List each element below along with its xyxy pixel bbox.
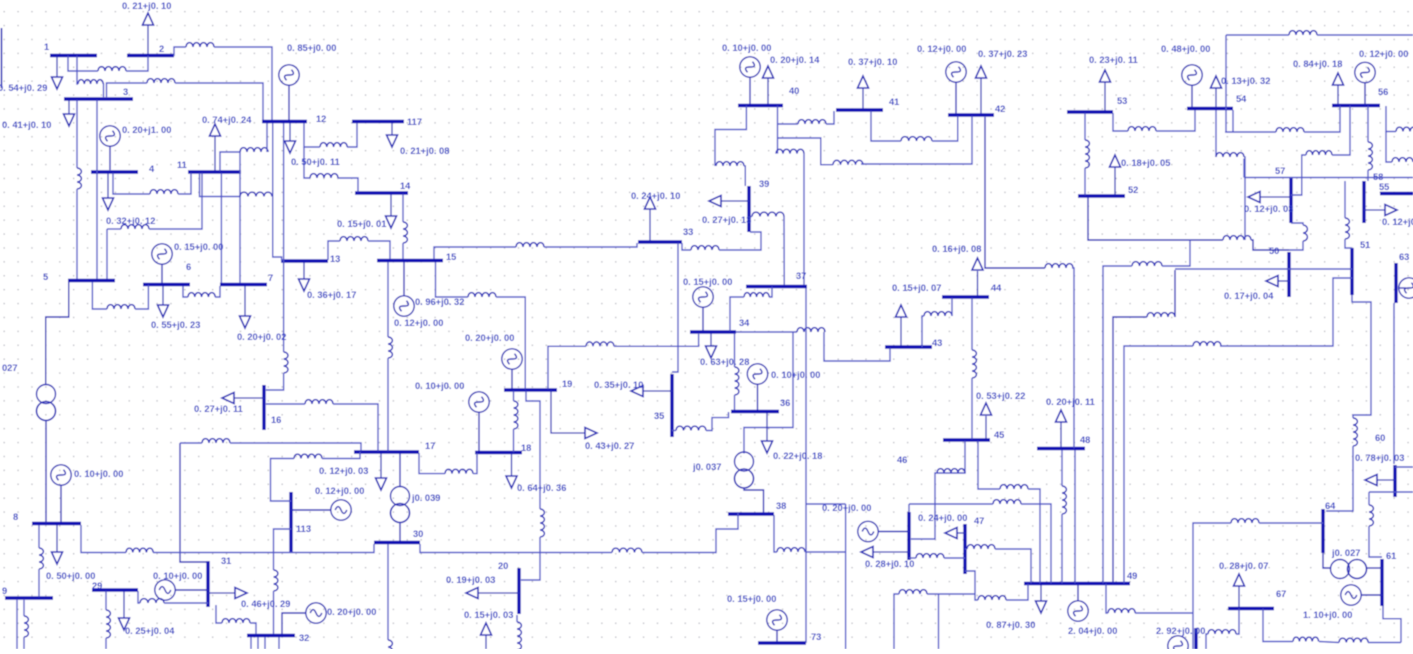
generator G40 bbox=[740, 57, 760, 77]
inductor 4-11 bbox=[150, 190, 178, 194]
wire 60-E2 bbox=[1369, 491, 1413, 493]
wire 4-11b bbox=[178, 173, 191, 194]
wire 49-E bbox=[1106, 584, 1108, 613]
wire 12-14 bbox=[304, 147, 310, 178]
bus 5 bbox=[43, 272, 115, 282]
inductor 39-E bbox=[752, 212, 784, 216]
bus 12 bbox=[262, 114, 326, 124]
wire 52-50b bbox=[1251, 240, 1289, 250]
wire 17-trf bbox=[399, 453, 401, 487]
load bus57 bbox=[1244, 192, 1293, 215]
bus 50 bbox=[1269, 246, 1289, 297]
svg-text:0. 10+j0. 00: 0. 10+j0. 00 bbox=[415, 381, 464, 391]
inductor 67-R bbox=[1293, 637, 1319, 641]
inductor 16-17 bbox=[305, 400, 333, 404]
wire 9-10b bbox=[23, 600, 25, 616]
load bus56 up bbox=[1293, 59, 1344, 105]
svg-text:0. 15+j0. 07: 0. 15+j0. 07 bbox=[892, 283, 941, 293]
transformer T17-30 j0.039 bbox=[391, 487, 441, 523]
wire 48-49x bbox=[1074, 450, 1076, 583]
svg-text:61: 61 bbox=[1386, 551, 1396, 561]
svg-text:0. 12+j0. 00: 0. 12+j0. 00 bbox=[315, 486, 364, 496]
svg-text:9: 9 bbox=[2, 586, 7, 596]
wire 15-19 bbox=[436, 262, 469, 297]
svg-text:0. 10+j0. 00: 0. 10+j0. 00 bbox=[722, 43, 771, 53]
svg-text:5: 5 bbox=[43, 272, 48, 282]
svg-text:0. 37+j0. 10: 0. 37+j0. 10 bbox=[848, 57, 897, 67]
svg-text:0. 24+j0. 10: 0. 24+j0. 10 bbox=[631, 191, 680, 201]
load bus29 bbox=[119, 591, 176, 636]
svg-text:117: 117 bbox=[407, 117, 422, 127]
inductor 12-117 bbox=[320, 143, 347, 147]
svg-text:8: 8 bbox=[13, 512, 18, 522]
bus 37 bbox=[746, 271, 807, 287]
wire 9-10a bbox=[16, 600, 18, 649]
load bus7 bbox=[237, 286, 286, 342]
wire G18 stem bbox=[478, 412, 480, 452]
wire 46-47 bbox=[909, 557, 916, 559]
wire 6-7 bbox=[183, 286, 188, 297]
wire 34-37 bbox=[769, 287, 772, 297]
wire 40-41 bbox=[778, 123, 799, 125]
wire 17-31 bbox=[180, 443, 208, 562]
wire 3-5a bbox=[76, 100, 78, 168]
wire 39-E bbox=[750, 216, 752, 218]
wire 39-Eb bbox=[783, 217, 785, 286]
bus 39 bbox=[749, 179, 769, 232]
inductor 8-9 bbox=[39, 548, 43, 569]
wire 29-S bbox=[105, 591, 107, 610]
inductor 17-18 bbox=[445, 469, 473, 473]
wire 61-Sd bbox=[1368, 642, 1401, 644]
load bus117 bbox=[387, 123, 450, 156]
load bus50 bbox=[1224, 276, 1289, 302]
inductor 8-30 bbox=[126, 548, 153, 552]
wire 46-49c bbox=[1021, 504, 1051, 583]
bus 18 bbox=[475, 443, 531, 453]
wire 48-49b bbox=[1061, 514, 1063, 583]
wire 17-113 bbox=[271, 459, 295, 502]
svg-text:0. 12+j0. 00: 0. 12+j0. 00 bbox=[917, 44, 966, 54]
wire G46 stem bbox=[878, 531, 910, 533]
inductor 54-56 bbox=[1276, 128, 1304, 132]
wire 32-s2 bbox=[257, 637, 259, 649]
wire 12-117b bbox=[347, 123, 357, 147]
wire 43-44 bbox=[922, 316, 924, 347]
svg-text:11: 11 bbox=[177, 160, 187, 170]
inductor 34-37 bbox=[744, 293, 769, 297]
generator G4 bbox=[100, 126, 120, 146]
inductor 12-14 bbox=[310, 174, 338, 178]
svg-text:0. 96+j0. 32: 0. 96+j0. 32 bbox=[415, 297, 464, 307]
svg-text:64: 64 bbox=[1325, 501, 1336, 511]
wire 56-57b bbox=[1291, 155, 1306, 195]
wire 60-61 bbox=[1368, 492, 1370, 505]
wire 37-73 bbox=[805, 288, 807, 643]
inductor 57-50 bbox=[1303, 225, 1307, 241]
wire 3-5b bbox=[96, 100, 98, 279]
wire 57-E bbox=[1244, 177, 1413, 179]
svg-text:0. 55+j0. 23: 0. 55+j0. 23 bbox=[151, 320, 200, 330]
wire 16-17 bbox=[266, 403, 305, 405]
wire 5-6 bbox=[92, 282, 107, 309]
wire 17-18b bbox=[473, 453, 477, 474]
inductor 45-46 bbox=[937, 469, 965, 473]
wire 56-E2 bbox=[1386, 132, 1392, 163]
load bus42 up bbox=[976, 49, 1028, 114]
wire 50br-49 bbox=[1162, 240, 1190, 266]
generator G36 bbox=[747, 364, 767, 384]
svg-text:39: 39 bbox=[759, 179, 769, 189]
wire 48-49 bbox=[1061, 450, 1063, 486]
bus 8 bbox=[13, 512, 81, 524]
wire edge-tick bbox=[1, 28, 3, 88]
svg-text:0. 41+j0. 10: 0. 41+j0. 10 bbox=[2, 120, 51, 130]
wire 46-49b bbox=[909, 503, 993, 505]
wire 18-19b bbox=[513, 391, 515, 401]
svg-text:53: 53 bbox=[1117, 96, 1127, 106]
svg-text:20: 20 bbox=[498, 561, 508, 571]
svg-text:16: 16 bbox=[271, 415, 281, 425]
load bus3 bbox=[2, 100, 75, 130]
inductor topB bbox=[1289, 31, 1317, 35]
svg-text:49: 49 bbox=[1127, 571, 1137, 581]
svg-text:52: 52 bbox=[1128, 185, 1138, 195]
wire 8-30 bbox=[81, 525, 126, 553]
svg-text:0. 27+j0. 11: 0. 27+j0. 11 bbox=[194, 404, 243, 414]
inductor 67-L bbox=[1208, 630, 1236, 634]
load bus48 up bbox=[1046, 397, 1095, 448]
wire trf-61 bbox=[1366, 567, 1382, 569]
inductor 38-E bbox=[777, 548, 805, 552]
bus 53 bbox=[1067, 96, 1127, 112]
generator G19 bbox=[502, 349, 522, 369]
generator G56 bbox=[1355, 62, 1375, 82]
wire 47-49b2 bbox=[1006, 584, 1028, 600]
svg-text:0. 48+j0. 00: 0. 48+j0. 00 bbox=[1161, 44, 1210, 54]
wire G49 stem bbox=[1077, 584, 1079, 602]
bus 36 bbox=[731, 398, 790, 412]
inductor 47-49a bbox=[967, 545, 995, 549]
bus 63 bbox=[1396, 252, 1409, 303]
bus 3 bbox=[64, 87, 133, 99]
inductor 19-34 bbox=[586, 342, 614, 346]
wire 49-64b bbox=[1259, 522, 1323, 524]
wire G36 stem bbox=[757, 384, 759, 410]
svg-text:38: 38 bbox=[776, 501, 786, 511]
wire 7-12 bbox=[239, 152, 241, 283]
svg-text:0. 12+j0. 00: 0. 12+j0. 00 bbox=[394, 318, 443, 328]
wire 2-12 bbox=[174, 47, 186, 56]
wire 5-11b bbox=[149, 173, 202, 229]
wire 38-Eb bbox=[805, 551, 846, 553]
svg-text:50: 50 bbox=[1269, 246, 1279, 256]
bus 16 bbox=[264, 385, 281, 430]
wire trf-30 bbox=[399, 523, 401, 542]
inductor 17-113 bbox=[294, 454, 322, 458]
svg-text:0. 54+j0. 29: 0. 54+j0. 29 bbox=[0, 83, 47, 93]
wire 113-32b bbox=[273, 591, 275, 634]
inductor 41-42 bbox=[901, 137, 932, 141]
wire 3-12b bbox=[175, 83, 263, 120]
wire 49-51b bbox=[1220, 278, 1352, 346]
inductor 49-51 bbox=[1193, 342, 1221, 346]
wire 53-54b bbox=[1156, 110, 1195, 131]
wire G32 stem bbox=[282, 613, 307, 634]
inductor 47-49b bbox=[978, 596, 1006, 600]
svg-text:54: 54 bbox=[1236, 94, 1247, 104]
svg-text:0. 12+j0. 00: 0. 12+j0. 00 bbox=[1359, 49, 1408, 59]
inductor 40-37 bbox=[776, 149, 804, 153]
svg-text:15: 15 bbox=[446, 252, 456, 262]
wire 53-52b bbox=[1084, 168, 1086, 195]
bus 1 bbox=[44, 42, 97, 56]
wire 1-3b bbox=[102, 84, 105, 97]
svg-text:027: 027 bbox=[2, 363, 18, 373]
wire 56-58 bbox=[1367, 106, 1369, 142]
wire 57-Ev bbox=[1243, 159, 1245, 178]
svg-text:2: 2 bbox=[159, 44, 164, 54]
svg-text:0. 20+j0. 00: 0. 20+j0. 00 bbox=[465, 333, 514, 343]
bus 35 bbox=[654, 374, 672, 437]
wire 34-36 bbox=[734, 333, 736, 367]
wire 54-57b bbox=[1244, 157, 1245, 240]
inductor 45-49 bbox=[1000, 485, 1028, 489]
inductor 56-E bbox=[1396, 127, 1413, 131]
wire G19 stem bbox=[511, 369, 513, 390]
wire 4-11 bbox=[113, 173, 150, 194]
wire 34-36b bbox=[734, 395, 736, 410]
inductor 11-12 bbox=[240, 148, 268, 152]
svg-text:40: 40 bbox=[789, 86, 799, 96]
svg-text:14: 14 bbox=[400, 181, 411, 191]
load bus18 bbox=[506, 453, 566, 493]
bus 4 bbox=[91, 164, 155, 174]
inductor 20-S bbox=[517, 622, 521, 650]
svg-text:0. 15+j0. 00: 0. 15+j0. 00 bbox=[727, 594, 776, 604]
load bus16 bbox=[194, 393, 264, 415]
generator G32 bbox=[306, 603, 326, 623]
svg-text:0. 28+j0. 07: 0. 28+j0. 07 bbox=[1219, 561, 1268, 571]
generator G73 bbox=[767, 610, 787, 630]
wire 12-117 bbox=[304, 123, 320, 147]
wire 2-12b bbox=[214, 47, 272, 120]
svg-text:2. 04+j0. 00: 2. 04+j0. 00 bbox=[1068, 626, 1117, 636]
load bus43 up bbox=[892, 283, 941, 346]
inductor 49-E bbox=[1108, 609, 1135, 613]
wire 40-37 bbox=[777, 106, 779, 154]
bus 60 bbox=[1375, 433, 1395, 497]
inductor 33-39 bbox=[691, 246, 719, 250]
svg-text:0. 10+j0. 00: 0. 10+j0. 00 bbox=[771, 370, 820, 380]
inductor 15-33 bbox=[516, 243, 544, 247]
wire 12-14b bbox=[338, 178, 358, 192]
wire G113 stem bbox=[291, 509, 332, 511]
bus 73 bbox=[758, 632, 821, 643]
svg-text:29: 29 bbox=[92, 581, 102, 591]
svg-text:30: 30 bbox=[413, 529, 423, 539]
svg-text:0. 10+j0. 00: 0. 10+j0. 00 bbox=[153, 571, 202, 581]
svg-text:45: 45 bbox=[994, 430, 1004, 440]
svg-text:0. 12+j0. 03: 0. 12+j0. 03 bbox=[319, 466, 368, 476]
svg-text:6: 6 bbox=[186, 262, 191, 272]
wire 42-48b bbox=[1072, 268, 1074, 448]
wire 52-50 bbox=[1088, 197, 1223, 240]
svg-text:67: 67 bbox=[1276, 589, 1286, 599]
svg-text:44: 44 bbox=[991, 283, 1002, 293]
inductor 5-11 bbox=[121, 225, 149, 229]
wire G15 stem bbox=[403, 262, 405, 297]
wire 15-17 bbox=[387, 262, 389, 337]
svg-text:34: 34 bbox=[739, 318, 750, 328]
wire 31-32 bbox=[216, 605, 222, 623]
wire 34-43 bbox=[736, 331, 797, 333]
wire 40-41b bbox=[826, 111, 834, 124]
svg-text:47: 47 bbox=[974, 516, 984, 526]
generator G61 bbox=[1341, 585, 1361, 605]
svg-text:0. 13+j0. 32: 0. 13+j0. 32 bbox=[1221, 76, 1270, 86]
svg-text:46: 46 bbox=[897, 455, 907, 465]
generator G12 bbox=[279, 65, 299, 85]
wire 29-31 bbox=[138, 591, 140, 603]
svg-text:0. 12+j0. 06: 0. 12+j0. 06 bbox=[1382, 217, 1413, 227]
svg-text:43: 43 bbox=[932, 338, 942, 348]
inductor 29-S bbox=[106, 610, 110, 638]
wire 34-38 bbox=[744, 332, 793, 454]
inductor 14-15 bbox=[403, 222, 407, 243]
svg-text:0. 20+j0. 11: 0. 20+j0. 11 bbox=[1046, 397, 1095, 407]
generator G34 bbox=[693, 287, 713, 307]
load bus19 right bbox=[551, 390, 634, 451]
wire 19-20b bbox=[521, 537, 540, 580]
wire 45-46b bbox=[911, 473, 937, 539]
svg-text:0. 50+j0. 11: 0. 50+j0. 11 bbox=[291, 157, 340, 167]
svg-text:0. 43+j0. 27: 0. 43+j0. 27 bbox=[585, 441, 634, 451]
inductor 2-12 bbox=[186, 43, 214, 47]
wire 14-15 bbox=[402, 194, 404, 222]
wire 67-L bbox=[1236, 609, 1239, 634]
svg-text:0. 17+j0. 04: 0. 17+j0. 04 bbox=[1224, 291, 1274, 301]
wire 3-12 bbox=[107, 83, 148, 97]
wire 11-12 bbox=[220, 152, 240, 171]
inductor 30-38 bbox=[612, 548, 642, 552]
svg-text:0. 27+j0. 13: 0. 27+j0. 13 bbox=[702, 215, 751, 225]
wire 37-E bbox=[806, 503, 846, 505]
wire 3-5a2 bbox=[76, 189, 78, 279]
inductor 58-51 bbox=[1345, 218, 1349, 239]
wire 32-s3 bbox=[264, 637, 266, 649]
transformer T36-38 j0.037 bbox=[692, 452, 754, 488]
bus 57 bbox=[1275, 166, 1291, 223]
bus 117 bbox=[352, 117, 422, 127]
bus 45 bbox=[943, 430, 1004, 440]
svg-text:j0. 037: j0. 037 bbox=[692, 462, 721, 472]
wire G31 stem bbox=[175, 589, 209, 591]
svg-text:17: 17 bbox=[425, 441, 435, 451]
inductor 31-32 bbox=[222, 619, 250, 623]
load bus33 up bbox=[631, 191, 680, 241]
wire 54-57 bbox=[1215, 110, 1217, 157]
wire 44-45 bbox=[971, 298, 973, 350]
svg-text:j0. 039: j0. 039 bbox=[411, 493, 440, 503]
load bus1 bbox=[0, 56, 63, 93]
wire 8-9 bbox=[38, 525, 40, 548]
bus 19 bbox=[504, 379, 572, 390]
inductor 17-31 bbox=[202, 439, 230, 443]
wire 8-30b bbox=[153, 544, 374, 553]
wire G4 stem bbox=[109, 146, 111, 171]
inductor 5-6 bbox=[107, 305, 135, 309]
wire 11-13b bbox=[271, 196, 274, 198]
svg-text:0. 15+j0. 00: 0. 15+j0. 00 bbox=[174, 242, 223, 252]
inductor 53-54 bbox=[1128, 127, 1156, 131]
wire 56-E bbox=[1386, 106, 1396, 132]
wire G61 stem bbox=[1361, 594, 1383, 596]
inductor 9-10 bbox=[24, 616, 28, 637]
inductor 51-64 bbox=[1353, 418, 1357, 446]
wire 19-20 bbox=[526, 391, 540, 509]
inductor 11-13 bbox=[240, 192, 272, 196]
wire 49-50 bbox=[1113, 317, 1147, 583]
inductor 56-57 bbox=[1306, 151, 1332, 155]
transformer T64-61 j0.027 bbox=[1331, 548, 1367, 579]
wire 13-15b bbox=[368, 241, 390, 259]
svg-text:0. 63+j0. 28: 0. 63+j0. 28 bbox=[700, 357, 749, 367]
inductor 113-32 bbox=[274, 570, 278, 591]
svg-text:0. 21+j0. 10: 0. 21+j0. 10 bbox=[122, 1, 171, 11]
wire 5-trf bbox=[46, 282, 69, 385]
wire 19-34 bbox=[548, 346, 586, 389]
wire 11-7 bbox=[220, 173, 222, 283]
inductor 13-15 bbox=[340, 237, 368, 241]
wire 32-s4 bbox=[278, 637, 280, 649]
bus 55 bbox=[1379, 182, 1413, 194]
generator G8 bbox=[51, 465, 71, 485]
wire 13-15 bbox=[328, 241, 340, 260]
svg-text:0. 12+j0. 03: 0. 12+j0. 03 bbox=[1244, 204, 1293, 214]
wire 15-33 bbox=[434, 247, 516, 259]
wire 54-56c bbox=[1304, 106, 1340, 132]
svg-text:0. 64+j0. 36: 0. 64+j0. 36 bbox=[517, 483, 566, 493]
svg-text:0. 37+j0. 23: 0. 37+j0. 23 bbox=[978, 49, 1027, 59]
wire 60-E1 bbox=[1395, 466, 1413, 468]
bus 40 bbox=[738, 86, 799, 106]
inductor 49-50 bbox=[1147, 313, 1175, 317]
svg-text:0. 53+j0. 22: 0. 53+j0. 22 bbox=[976, 391, 1025, 401]
bus 113 bbox=[291, 492, 311, 552]
wire 61-S bbox=[1383, 606, 1401, 643]
wire 67-R bbox=[1263, 609, 1293, 642]
svg-text:2. 92+j0. 00: 2. 92+j0. 00 bbox=[1156, 626, 1205, 636]
bus 44 bbox=[942, 283, 1002, 297]
load bus36 bbox=[762, 413, 823, 461]
bus 13 bbox=[281, 254, 340, 264]
svg-text:j0. 027: j0. 027 bbox=[1331, 548, 1360, 558]
bus 54 bbox=[1187, 94, 1247, 109]
generator G15 bbox=[394, 296, 414, 316]
load bus44 up bbox=[932, 244, 983, 296]
inductor 56-58 bbox=[1368, 142, 1372, 170]
inductor 48-49 bbox=[1062, 486, 1066, 514]
wire 113-32 bbox=[274, 529, 292, 570]
svg-text:0. 28+j0. 10: 0. 28+j0. 10 bbox=[865, 559, 914, 569]
wire 40-39b bbox=[744, 166, 745, 186]
inductor 3-5 bbox=[77, 168, 81, 189]
load bus13 bbox=[299, 262, 357, 300]
wire 40-37b bbox=[803, 154, 805, 285]
svg-text:31: 31 bbox=[221, 556, 231, 566]
wire 19-34b bbox=[614, 334, 699, 346]
